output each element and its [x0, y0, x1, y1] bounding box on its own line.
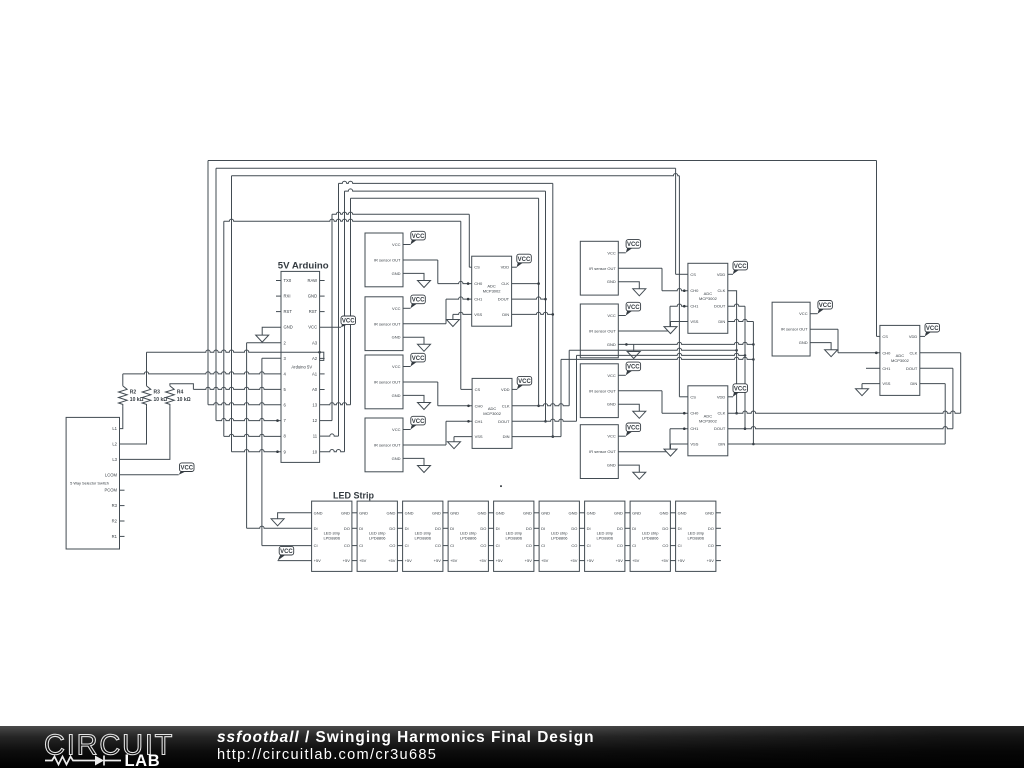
wire pin2 to LED DI [247, 342, 281, 344]
svg-text:CO: CO [526, 543, 532, 548]
svg-text:CO: CO [435, 543, 441, 548]
wires LED strip 8 to 9 [670, 513, 675, 561]
wire DIN bus ADC4 to ADC5 [726, 443, 945, 445]
svg-text:CLK: CLK [718, 288, 726, 293]
svg-text:CO: CO [662, 543, 668, 548]
svg-text:RXI: RXI [284, 294, 291, 299]
ground at ADC2 VSS [448, 442, 461, 449]
wire pin5 to R4 top [193, 387, 281, 389]
ground at IR sensor 4 [418, 466, 431, 473]
junction A2 node [318, 351, 321, 354]
svg-text:CH1: CH1 [882, 366, 891, 371]
VCC flag at IR sensor 4 [411, 416, 426, 425]
wires LED strip 5 to 6 [534, 513, 539, 561]
LED strip module U18 LPD8806 [403, 501, 443, 571]
svg-text:GND: GND [341, 510, 350, 515]
wire ADC3 VSS to ground [671, 321, 688, 323]
svg-text:6: 6 [284, 403, 287, 408]
IR sensor module U10 [772, 302, 810, 356]
svg-text:DI: DI [314, 526, 318, 531]
switch S1 5 Way Selector Switch [66, 417, 124, 549]
svg-text:VDD: VDD [717, 272, 726, 277]
svg-text:CS: CS [882, 334, 888, 339]
ground at ADC3 VSS [664, 327, 677, 334]
VCC flag at ADC5 [925, 323, 940, 332]
IR sensor module U6 [580, 241, 618, 295]
svg-text:3: 3 [284, 356, 287, 361]
svg-text:CH1: CH1 [475, 419, 484, 424]
junction at ADC input from IR9 [875, 352, 878, 355]
svg-text:DO: DO [662, 526, 668, 531]
svg-text:DO: DO [389, 526, 395, 531]
svg-text:DI: DI [450, 526, 454, 531]
svg-text:VCC: VCC [412, 419, 425, 425]
svg-text:CO: CO [708, 543, 714, 548]
VCC flag at IR sensor 2 [411, 295, 426, 304]
svg-text:CH0: CH0 [474, 281, 483, 286]
wire IR4 VCC to flag [403, 429, 411, 431]
svg-text:GND: GND [587, 510, 596, 515]
LED strip module U16 LPD8806 [312, 501, 352, 571]
wire Arduino VCC pin [320, 326, 341, 328]
svg-text:GND: GND [478, 510, 487, 515]
svg-text:GND: GND [523, 510, 532, 515]
svg-text:+5V: +5V [496, 558, 504, 563]
svg-text:CI: CI [450, 543, 454, 548]
svg-text:LCOM: LCOM [105, 472, 118, 477]
svg-text:IR sensor OUT: IR sensor OUT [374, 380, 401, 385]
VCC flag at ADC3 [733, 261, 748, 270]
svg-text:VCC: VCC [607, 434, 616, 439]
svg-text:L2: L2 [112, 442, 117, 447]
ground at IR sensor 2 [418, 344, 431, 351]
LED strip module U17 LPD8806 [357, 501, 397, 571]
ground at IR sensor 6 [627, 352, 640, 359]
svg-text:LPD8806: LPD8806 [687, 536, 704, 541]
svg-text:DIN: DIN [502, 312, 509, 317]
wire ADC1 DIN to DIN vertical [512, 312, 553, 314]
svg-text:VCC: VCC [412, 234, 425, 240]
junction DOUT2 [544, 420, 547, 423]
svg-text:A0: A0 [312, 387, 318, 392]
svg-text:DOUT: DOUT [906, 366, 918, 371]
svg-text:GND: GND [678, 510, 687, 515]
IR sensor module U8 [580, 364, 618, 418]
svg-text:VSS: VSS [475, 434, 483, 439]
ground at LED strip [271, 519, 284, 526]
svg-text:MCP3002: MCP3002 [483, 289, 502, 294]
svg-text:DIN: DIN [503, 434, 510, 439]
svg-text:L3: L3 [112, 457, 117, 462]
svg-text:CH1: CH1 [474, 297, 483, 302]
svg-text:GND: GND [284, 325, 293, 330]
wires LED strip 1 to 2 [352, 513, 357, 561]
svg-text:CH1: CH1 [690, 426, 699, 431]
wire selector LCOM to VCC [120, 474, 179, 476]
svg-text:+5V: +5V [616, 558, 624, 563]
wire IR5 OUT to ADC input [618, 267, 662, 269]
wire pin10 to DOUT net [320, 450, 345, 452]
svg-text:DO: DO [617, 526, 623, 531]
svg-text:CH1: CH1 [690, 304, 699, 309]
wires LED strip 3 to 4 [443, 513, 448, 561]
footer url text [217, 747, 437, 763]
svg-text:LED Strip: LED Strip [333, 491, 375, 501]
svg-text:+5V: +5V [570, 558, 578, 563]
svg-text:VCC: VCC [412, 356, 425, 362]
svg-text:VCC: VCC [607, 313, 616, 318]
wire ADC4 VSS to ground [671, 443, 688, 445]
svg-text:R3: R3 [112, 503, 118, 508]
svg-text:LPD8806: LPD8806 [369, 536, 386, 541]
svg-text:VCC: VCC [819, 303, 832, 309]
wires LED strip 2 to 3 [397, 513, 402, 561]
svg-text:+5V: +5V [632, 558, 640, 563]
svg-text:IR sensor OUT: IR sensor OUT [374, 321, 401, 326]
svg-text:VCC: VCC [627, 365, 640, 371]
svg-text:2: 2 [284, 340, 287, 345]
wire ADC2 DOUT row to row C [512, 419, 576, 421]
wire pin9 to ADC4 CS (net CS4) [232, 450, 282, 452]
svg-text:CH0: CH0 [475, 403, 484, 408]
svg-text:8: 8 [284, 434, 287, 439]
svg-text:LPD8806: LPD8806 [323, 536, 340, 541]
junction row D to DIN3 [752, 358, 755, 361]
svg-text:CLK: CLK [718, 411, 726, 416]
svg-text:TX0: TX0 [284, 278, 292, 283]
wire ADC2 CLK row to row B [512, 404, 569, 406]
VCC flag at IR sensor 5 [626, 240, 641, 249]
wire IR2 GND to ground [403, 337, 424, 344]
svg-text:GND: GND [392, 393, 401, 398]
svg-text:CI: CI [314, 543, 318, 548]
svg-text:MCP3002: MCP3002 [699, 418, 718, 423]
ground at IR sensor 3 [418, 403, 431, 410]
svg-text:VSS: VSS [882, 381, 890, 386]
svg-text:+5V: +5V [450, 558, 458, 563]
junction row B to CLK3 [735, 349, 738, 352]
wire IR6 OUT to ADC input [618, 330, 670, 332]
wire ADC5 CH1 stub [866, 367, 880, 369]
svg-text:PCOM: PCOM [104, 488, 117, 493]
svg-text:DOUT: DOUT [714, 426, 726, 431]
svg-text:5 Way Selector Switch: 5 Way Selector Switch [70, 480, 109, 485]
svg-text:GND: GND [496, 510, 505, 515]
svg-text:VCC: VCC [627, 242, 640, 248]
wire DOUT bus ADC4 to ADC5 [726, 427, 953, 429]
junction ADC5 CH0 [875, 352, 878, 355]
ground at ADC5 VSS [856, 389, 869, 396]
junction DOUT bus at ADC3 [744, 427, 747, 430]
wire ADC3 DIN to DIN bus [726, 319, 753, 321]
svg-text:VCC: VCC [342, 319, 355, 325]
svg-text:IR sensor OUT: IR sensor OUT [589, 266, 616, 271]
svg-text:VCC: VCC [627, 426, 640, 432]
svg-text:VCC: VCC [392, 427, 401, 432]
svg-text:DIN: DIN [718, 319, 725, 324]
svg-text:+5V: +5V [388, 558, 396, 563]
svg-text:VCC: VCC [799, 311, 808, 316]
svg-text:GND: GND [392, 335, 401, 340]
wire IR6 ground stem [633, 344, 635, 351]
svg-text:DOUT: DOUT [498, 419, 510, 424]
ground at IR sensor 1 [418, 281, 431, 288]
A2 jumper box [320, 352, 324, 360]
wire ADC2 DIN row to row D [512, 436, 561, 438]
svg-text:+5V: +5V [314, 558, 322, 563]
wire IR2 VCC to flag [403, 307, 411, 309]
junction pin7 endpoint [276, 419, 279, 422]
svg-text:DO: DO [344, 526, 350, 531]
junction DIN bus at ADC3 [752, 443, 755, 446]
svg-text:9: 9 [284, 449, 287, 454]
IR sensor module U5 [365, 418, 403, 472]
svg-text:5: 5 [284, 387, 287, 392]
wire IR9 OUT to ADC input [810, 328, 838, 330]
wire R3 top to Arduino A2 (net A2) [146, 352, 148, 386]
resistor R3 10 kΩ [142, 386, 167, 407]
IR sensor module U9 [580, 425, 618, 479]
svg-text:CO: CO [480, 543, 486, 548]
svg-text:+5V: +5V [525, 558, 533, 563]
junction at ADC input from IR2 [467, 298, 470, 301]
VCC flag at ADC2 [517, 376, 532, 385]
svg-text:CI: CI [405, 543, 409, 548]
svg-text:Arduino 5V: Arduino 5V [291, 365, 312, 370]
svg-text:DI: DI [632, 526, 636, 531]
junction CLK bus at ADC3 [735, 412, 738, 415]
LED strip module U23 LPD8806 [630, 501, 670, 571]
resistor R4 10 kΩ [166, 386, 191, 407]
svg-text:CO: CO [617, 543, 623, 548]
svg-text:LAB: LAB [125, 752, 161, 768]
svg-text:VCC: VCC [280, 549, 293, 555]
svg-text:VCC: VCC [392, 242, 401, 247]
svg-text:RST: RST [284, 309, 293, 314]
VCC flag at IR sensor 3 [411, 353, 426, 362]
ground at IR sensor 9 [825, 350, 838, 357]
wire IR4 OUT to ADC input [403, 444, 446, 446]
junction row A to DIN3 [752, 343, 755, 346]
svg-text:VCC: VCC [607, 373, 616, 378]
svg-text:VSS: VSS [690, 319, 698, 324]
svg-text:GND: GND [607, 342, 616, 347]
svg-text:R3: R3 [154, 390, 161, 396]
svg-text:GND: GND [799, 340, 808, 345]
wire IR8 GND to ground [618, 465, 639, 472]
svg-text:CI: CI [587, 543, 591, 548]
svg-text:GND: GND [569, 510, 578, 515]
svg-text:CH0: CH0 [690, 411, 699, 416]
wire ADC4 VDD to VCC [728, 396, 733, 398]
svg-text:CO: CO [571, 543, 577, 548]
svg-text:+5V: +5V [541, 558, 549, 563]
wire ADC5 VDD to VCC [920, 335, 925, 337]
wire IR9 GND to ground [810, 343, 831, 350]
svg-text:DI: DI [587, 526, 591, 531]
wire IR4 GND to ground [403, 458, 424, 465]
svg-text:R1: R1 [112, 534, 118, 539]
ADC U14 MCP3002 [688, 386, 728, 456]
wire R3 bottom to selector L2 [120, 406, 147, 444]
wire ADC5 VSS to ground [862, 383, 880, 385]
svg-text:CI: CI [541, 543, 545, 548]
wire IR7 VCC to flag [618, 374, 626, 376]
wire IR9 VCC to flag [810, 313, 818, 315]
VCC flag at Arduino VCC [341, 316, 356, 325]
wire CLK bus ADC4 to ADC5 [726, 411, 960, 413]
svg-text:LPD8806: LPD8806 [596, 536, 613, 541]
wire R2 bottom to selector L1 [120, 406, 123, 428]
svg-text:DO: DO [708, 526, 714, 531]
wire pin4 to R2 top [123, 372, 281, 374]
svg-text:CO: CO [389, 543, 395, 548]
svg-text:VSS: VSS [474, 312, 482, 317]
svg-text:IR sensor OUT: IR sensor OUT [374, 443, 401, 448]
wire IR8 OUT to ADC input [618, 451, 670, 453]
wire IR7 OUT to ADC input [618, 390, 662, 392]
VCC flag at IR sensor 9 [818, 301, 833, 310]
VCC flag at LED strip [279, 546, 294, 555]
svg-text:DIN: DIN [718, 442, 725, 447]
wire LED +5V to VCC [278, 560, 312, 562]
svg-text:VCC: VCC [734, 264, 747, 270]
svg-text:CLK: CLK [502, 403, 510, 408]
svg-text:DI: DI [405, 526, 409, 531]
junction CLK2 [537, 405, 540, 408]
svg-text:VCC: VCC [308, 325, 317, 330]
junction DIN2 [552, 435, 555, 438]
svg-text:GND: GND [387, 510, 396, 515]
wire IR1 OUT to ADC input [403, 259, 438, 261]
wire ADC1 DOUT to DOUT vertical [512, 297, 546, 299]
wire ADC3 VDD to VCC [728, 273, 733, 275]
junction at ADC input from IR3 [467, 405, 470, 408]
VCC flag at IR sensor 8 [626, 423, 641, 432]
svg-text:VDD: VDD [909, 334, 918, 339]
svg-text:+5V: +5V [479, 558, 487, 563]
svg-text:GND: GND [632, 510, 641, 515]
wire IR5 VCC to flag [618, 252, 626, 254]
wire pin13 to CLK net [320, 403, 351, 405]
svg-text:CLK: CLK [910, 350, 918, 355]
wire pin7 to ADC3 CS (net CS3) [216, 418, 281, 420]
ground at ADC1 VSS [446, 320, 459, 327]
svg-text:VDD: VDD [501, 265, 510, 270]
LED strip module U20 LPD8806 [494, 501, 534, 571]
ground at IR sensor 7 [633, 411, 646, 418]
svg-text:VDD: VDD [501, 387, 510, 392]
VCC flag at selector LCOM [180, 463, 195, 472]
junction DIN1 [552, 313, 555, 316]
svg-text:A2: A2 [312, 356, 318, 361]
microcontroller U1 5V Arduino [276, 261, 329, 463]
svg-text:12: 12 [312, 418, 317, 423]
svg-text:CS: CS [475, 387, 481, 392]
svg-text:+5V: +5V [434, 558, 442, 563]
svg-text:CH0: CH0 [690, 288, 699, 293]
junction at ADC input from IR6 [683, 305, 686, 308]
svg-text:10 kΩ: 10 kΩ [177, 397, 191, 403]
LED strip module U19 LPD8806 [448, 501, 488, 571]
wire IR3 VCC to flag [403, 366, 411, 368]
VCC flag at IR sensor 7 [626, 362, 641, 371]
svg-text:MCP3002: MCP3002 [891, 358, 910, 363]
svg-text:DI: DI [678, 526, 682, 531]
svg-text:GND: GND [392, 271, 401, 276]
svg-text:CI: CI [632, 543, 636, 548]
svg-text:CI: CI [496, 543, 500, 548]
svg-text:A3: A3 [312, 340, 318, 345]
wire ADC3 DOUT to DOUT bus [726, 304, 745, 306]
svg-text:+5V: +5V [343, 558, 351, 563]
svg-text:+5V: +5V [678, 558, 686, 563]
wire IR1 GND to ground [403, 273, 424, 280]
svg-text:IR sensor OUT: IR sensor OUT [374, 258, 401, 263]
wire pin11 to DIN net [320, 434, 339, 436]
wire IR5 GND to ground [618, 282, 639, 289]
wires LED strip 4 to 5 [488, 513, 493, 561]
svg-text:CH0: CH0 [882, 350, 891, 355]
wire ADC3 CLK to CLK bus [726, 291, 736, 414]
svg-text:5V Arduino: 5V Arduino [278, 261, 329, 272]
svg-text:+5V: +5V [587, 558, 595, 563]
svg-text:IR sensor OUT: IR sensor OUT [589, 388, 616, 393]
svg-text:DI: DI [541, 526, 545, 531]
footer title text [217, 729, 595, 747]
svg-text:GND: GND [660, 510, 669, 515]
CircuitLab logo [0, 726, 210, 768]
junction at ADC input from IR1 [467, 282, 470, 285]
junction DOUT1 [544, 298, 547, 301]
svg-text:IR sensor OUT: IR sensor OUT [589, 329, 616, 334]
VCC flag at IR sensor 6 [626, 302, 641, 311]
LED strip module U21 LPD8806 [539, 501, 579, 571]
svg-text:RAW: RAW [307, 278, 317, 283]
svg-text:LPD8806: LPD8806 [551, 536, 568, 541]
junction stray [500, 485, 502, 487]
junction IR6 GND [625, 343, 628, 346]
svg-text:CS: CS [690, 272, 696, 277]
LED strip module U24 LPD8806 [676, 501, 721, 571]
svg-text:L1: L1 [112, 426, 117, 431]
wire pin6 to ADC5 CS (net CS5) [208, 403, 281, 405]
wire IR7 GND to ground [618, 404, 639, 411]
junction at ADC input from IR5 [683, 289, 686, 292]
svg-text:VCC: VCC [518, 257, 531, 263]
svg-text:VCC: VCC [518, 379, 531, 385]
VCC flag at IR sensor 1 [411, 231, 426, 240]
svg-text:DO: DO [571, 526, 577, 531]
svg-text:11: 11 [313, 434, 318, 439]
svg-text:IR sensor OUT: IR sensor OUT [781, 327, 808, 332]
svg-text:VSS: VSS [690, 442, 698, 447]
svg-text:VCC: VCC [412, 298, 425, 304]
wire Arduino GND to ground [262, 327, 281, 335]
svg-text:MCP3002: MCP3002 [699, 296, 718, 301]
svg-text:CS: CS [474, 265, 480, 270]
svg-text:R4: R4 [177, 390, 184, 396]
wire pin3 to LED CI [262, 357, 281, 359]
svg-text:+5V: +5V [405, 558, 413, 563]
svg-text:GND: GND [541, 510, 550, 515]
ground at IR sensor 5 [633, 289, 646, 296]
svg-text:VCC: VCC [734, 386, 747, 392]
wire ADC1 VDD to VCC [512, 266, 517, 268]
svg-text:DI: DI [496, 526, 500, 531]
svg-text:A1: A1 [312, 371, 318, 376]
svg-text:DIN: DIN [910, 381, 917, 386]
